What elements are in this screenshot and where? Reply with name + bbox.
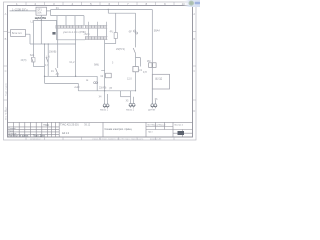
svg-text:датчик: датчик — [148, 110, 156, 112]
wire: bus drop left — [50, 10, 52, 16]
row reference ticks right — [193, 32, 197, 101]
wire: long vertical x44.6 — [44, 44, 46, 83]
svg-text:Лист: Лист — [148, 132, 153, 134]
svg-text:12,0: 12,0 — [127, 77, 132, 80]
svg-text:ЩУ,2Д: ЩУ,2Д — [155, 77, 162, 80]
svg-text:Подп. и дата: Подп. и дата — [6, 82, 8, 96]
svg-text:насос 1: насос 1 — [100, 110, 109, 112]
svg-text:-FU: -FU — [109, 31, 113, 34]
wire: sub-bus y15.6 — [51, 15, 84, 17]
wire: incoming feed line — [10, 10, 37, 12]
svg-text:29(ПУ2): 29(ПУ2) — [116, 48, 125, 51]
title block — [8, 122, 193, 137]
junction dots — [41, 20, 136, 92]
wire: bus y76.3 — [45, 75, 98, 77]
svg-text:Лит Масса Масшт: Лит Масса Масшт — [147, 125, 165, 127]
inner drawing frame — [8, 6, 193, 138]
circuit breaker QF1 box — [36, 7, 47, 15]
wire: drop to y13.2 — [107, 10, 109, 14]
switch S2 on x48.2 — [46, 57, 48, 63]
wire: horizontal y44 — [30, 43, 76, 45]
wire: below switch — [33, 63, 35, 67]
svg-text:Изм Лист № докум.: Изм Лист № докум. — [8, 135, 29, 138]
tick on x104.6 — [101, 70, 104, 72]
svg-text:9(М): 9(М) — [94, 64, 99, 67]
svg-text:ЩАУ ПН: ЩАУ ПН — [35, 16, 46, 20]
column reference ticks top — [26, 2, 174, 6]
column reference ticks bottom — [26, 137, 174, 140]
wire: to box — [151, 67, 153, 104]
svg-text:16A: 16A — [37, 11, 42, 14]
contactor coil KM1 — [149, 63, 152, 68]
svg-text:Схема электрич. принц.: Схема электрич. принц. — [105, 128, 133, 131]
svg-text:(Θ: (Θ — [109, 87, 112, 90]
wire: vertical x75.6 from bar1 — [75, 29, 77, 77]
wire: jog to x44.6 — [34, 66, 45, 68]
plug/socket pair XP2 — [129, 103, 132, 106]
outer sheet border — [4, 2, 197, 140]
svg-text:≥1&0: ≥1&0 — [74, 86, 80, 89]
wire: to bus y76.3 — [57, 74, 59, 77]
svg-text:-X2.1: -X2.1 — [84, 32, 91, 36]
svg-text:ЗВА4: ЗВА4 — [154, 30, 161, 33]
wire: QF1 output drop — [40, 15, 42, 44]
wire: QF1 right stub — [47, 10, 51, 12]
svg-text:C: C — [193, 69, 195, 73]
wire: horizontal bus y20.4 — [34, 19, 57, 21]
wire: step x120.5 — [120, 91, 122, 97]
svg-text:10(АВ): 10(АВ) — [49, 51, 57, 54]
wire: terminal drops to bar1 — [57, 16, 84, 26]
svg-text:копировал: копировал — [30, 139, 41, 141]
relay coil on x104.6 — [106, 73, 112, 78]
wire: top bus — [51, 9, 153, 11]
row letters right — [193, 12, 195, 113]
column numbers top — [16, 2, 185, 6]
row reference ticks left — [4, 32, 8, 101]
wire: plug group 3 stems — [152, 89, 155, 105]
svg-text:КМ: КМ — [147, 60, 150, 63]
wire: tick y43.6 — [105, 43, 116, 45]
wire: vertical x135.5 — [135, 13, 137, 47]
terminal strip X2 (row 2, hatched) — [86, 37, 107, 40]
row letters left — [5, 12, 7, 113]
svg-text:D: D — [193, 109, 195, 113]
plug/socket pair XP3 — [151, 104, 154, 107]
title block texts (smudges) — [8, 128, 17, 135]
svg-text:wt: wt — [86, 79, 89, 82]
wire: continue down — [135, 53, 137, 66]
label dark near x53 — [52, 32, 55, 35]
left margin rotated captions — [5, 82, 8, 120]
wire: interconnect between strips — [89, 29, 107, 37]
svg-text:B: B — [193, 37, 195, 41]
small contact pair — [94, 82, 96, 84]
svg-text:Подп. Дата: Подп. Дата — [33, 136, 46, 138]
svg-text:B: B — [5, 37, 7, 41]
svg-text:А4 1 2: А4 1 2 — [62, 132, 70, 135]
wire: right vertical x152.3 — [151, 10, 153, 63]
terminal strip X1 (row 1, hatched) — [56, 25, 107, 28]
wire: plug group 2 stems — [131, 91, 134, 104]
wire: right stubs above bar1 — [89, 22, 107, 25]
svg-text:22(4Э): 22(4Э) — [99, 87, 107, 90]
wire: vertical x48.2 — [47, 44, 49, 76]
svg-text:-X3: -X3 — [55, 73, 59, 76]
svg-text:1~220B 50Гц: 1~220B 50Гц — [12, 7, 28, 11]
wire: sub-bus y13.2 — [108, 12, 135, 14]
controller A2 box — [152, 74, 169, 89]
svg-text:20(П): 20(П) — [21, 60, 27, 62]
svg-text:справ. № перв. примен. инв. №: справ. № перв. примен. инв. № подл. подп… — [92, 138, 144, 141]
svg-text:насос 2: насос 2 — [126, 110, 135, 112]
switch S1 — [31, 57, 33, 63]
wire: G1 stub left — [8, 31, 11, 33]
wire: rail y90.8 — [78, 90, 135, 92]
wire: G1 to vertical — [25, 34, 30, 44]
contact circles on x135.5 — [134, 30, 136, 32]
svg-text:формат А3: формат А3 — [150, 138, 162, 141]
wire: left vertical riser — [33, 20, 35, 57]
contact K1.1 — [56, 68, 58, 73]
svg-text:Листов 1: Листов 1 — [174, 125, 184, 127]
svg-text:C: C — [5, 69, 7, 73]
wire: vertical x56.5 upper — [56, 20, 58, 39]
contact K2.1 — [133, 48, 135, 53]
fuse FU1 on x115.7 — [115, 13, 117, 43]
wire: branch y57.6 — [136, 58, 141, 67]
node: bus junction — [108, 9, 109, 10]
plug/socket pair XP1 — [103, 104, 106, 107]
svg-text:Блок пит.: Блок пит. — [12, 32, 23, 35]
svg-text:ТУАС.421 25.001: ТУАС.421 25.001 — [60, 123, 79, 126]
wire: plug group 1 stems — [105, 40, 108, 105]
svg-text:A: A — [193, 12, 195, 16]
svg-text:9,П: 9,П — [143, 71, 147, 74]
wire: step x78.3 — [77, 83, 79, 90]
wire: step x97.2 — [96, 76, 98, 91]
svg-text:ТУАС: ТУАС — [43, 124, 49, 127]
svg-text:Э3.12: Э3.12 — [84, 124, 91, 126]
wire: rail y96.7 — [121, 96, 131, 98]
svg-text:U1,2: U1,2 — [69, 61, 75, 64]
svg-text:-SF: -SF — [128, 31, 132, 34]
wire: jog y39.8 to strip X2 — [57, 39, 86, 41]
relay coil K1 — [133, 67, 138, 72]
wire: drop from bar1 x57.7 — [57, 29, 59, 69]
bottom margin fine print — [30, 138, 162, 141]
wire: rail y83.4 — [45, 82, 79, 84]
wire: coil to rail — [135, 72, 137, 91]
svg-text:A: A — [5, 12, 7, 16]
label ~220V feed — [12, 7, 28, 11]
label under QF1 (dark) — [35, 16, 46, 20]
svg-text:D: D — [5, 109, 7, 113]
power supply G1 box — [11, 30, 26, 37]
svg-text:SA1: SA1 — [30, 54, 35, 57]
